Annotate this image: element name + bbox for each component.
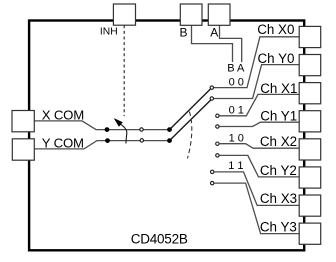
svg-text:Ch X1: Ch X1 bbox=[260, 81, 297, 96]
svg-text:1 1: 1 1 bbox=[228, 160, 243, 172]
svg-text:B: B bbox=[180, 26, 188, 40]
svg-text:INH: INH bbox=[100, 27, 118, 38]
svg-text:CD4052B: CD4052B bbox=[131, 232, 188, 247]
svg-text:Ch Y1: Ch Y1 bbox=[260, 109, 297, 124]
svg-text:Ch Y0: Ch Y0 bbox=[258, 51, 295, 66]
svg-text:0 0: 0 0 bbox=[229, 76, 244, 88]
svg-text:Ch X2: Ch X2 bbox=[260, 134, 297, 149]
svg-text:Y COM: Y COM bbox=[42, 136, 84, 151]
svg-text:Ch X3: Ch X3 bbox=[260, 191, 297, 206]
svg-text:Ch Y3: Ch Y3 bbox=[260, 219, 297, 234]
svg-text:A: A bbox=[210, 26, 218, 40]
svg-text:B A: B A bbox=[227, 63, 245, 75]
svg-text:Ch X0: Ch X0 bbox=[257, 22, 294, 37]
svg-text:Ch Y2: Ch Y2 bbox=[260, 163, 297, 178]
svg-text:0 1: 0 1 bbox=[229, 104, 244, 116]
svg-text:1 0: 1 0 bbox=[229, 133, 244, 145]
svg-text:X COM: X COM bbox=[42, 108, 84, 123]
